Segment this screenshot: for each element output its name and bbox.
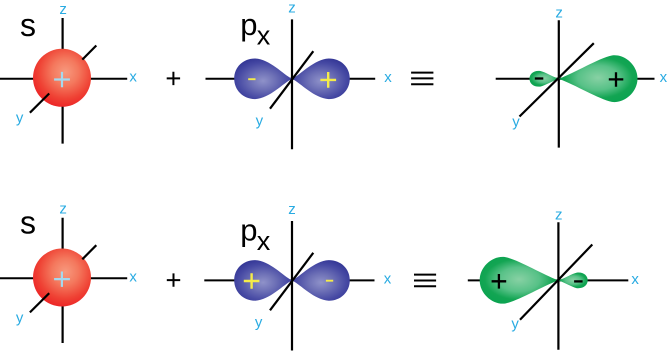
svg-text:z: z xyxy=(555,5,563,22)
svg-text:x: x xyxy=(129,268,137,285)
svg-text:s: s xyxy=(20,7,36,43)
svg-text:y: y xyxy=(255,314,263,331)
svg-text:z: z xyxy=(288,201,296,218)
s orbital (row 2): light blue plus sign xyxy=(54,272,70,287)
equivalence sign (row 1) xyxy=(411,73,433,85)
svg-text:p: p xyxy=(240,212,257,247)
p orbital (row 2): x axis wire xyxy=(204,279,374,281)
svg-text:y: y xyxy=(16,110,24,127)
p orbital (row 2): left lobe (positive) xyxy=(234,260,292,301)
s orbital (row 2): x axis wire xyxy=(0,277,127,279)
sp hybrid orbital (row 2): x axis wire xyxy=(468,279,629,281)
svg-text:x: x xyxy=(384,69,392,86)
s orbital (row 1): y axis upper segment xyxy=(82,46,96,60)
svg-text:y: y xyxy=(16,309,24,326)
p orbital (row 2): z axis wire xyxy=(291,221,293,351)
p orbital (row 2): yellow plus sign xyxy=(244,273,260,289)
p orbital (row 1): left lobe (negative) xyxy=(234,59,292,100)
svg-text:y: y xyxy=(256,112,264,129)
s orbital (row 1): y axis lower segment xyxy=(30,94,49,113)
sp hybrid orbital (row 1): y axis wire xyxy=(520,43,594,116)
sp hybrid orbital (row 1): black minus sign xyxy=(535,77,544,79)
sp hybrid orbital (row 1): z axis wire xyxy=(558,20,560,147)
sp hybrid orbital (row 2): z axis wire xyxy=(557,222,559,349)
plus operator (row 1) xyxy=(167,72,180,85)
s orbital (row 2): y axis lower segment xyxy=(30,293,49,312)
svg-text:x: x xyxy=(257,226,271,256)
sp hybrid orbital (row 2): black minus sign xyxy=(574,280,583,282)
p orbital (row 2): yellow minus sign xyxy=(326,280,333,282)
svg-text:x: x xyxy=(129,69,137,86)
sp hybrid orbital (row 2): small lobe (negative) xyxy=(558,272,587,288)
equivalence sign (row 2) xyxy=(414,275,436,287)
s orbital (row 2): z axis wire xyxy=(61,218,63,343)
s orbital (row 1): red sphere xyxy=(33,49,91,107)
svg-text:x: x xyxy=(660,69,668,86)
sp hybrid orbital (row 2): y axis wire xyxy=(520,245,592,320)
p orbital (row 2): y axis wire xyxy=(270,253,313,310)
sp hybrid orbital (row 1): x axis wire xyxy=(496,78,655,80)
sp hybrid orbital (row 1): large lobe (positive) xyxy=(559,55,638,102)
p orbital (row 2): right lobe (negative) xyxy=(292,260,350,301)
sp hybrid orbital (row 2): black plus sign xyxy=(492,274,507,289)
p orbital (row 1): z axis wire xyxy=(291,19,293,149)
s orbital (row 1): light blue plus sign xyxy=(54,72,70,87)
svg-text:y: y xyxy=(512,113,520,130)
p orbital (row 1): y axis wire xyxy=(270,51,313,108)
sp hybrid orbital (row 2): large lobe (positive) xyxy=(480,257,559,304)
p orbital (row 1): yellow plus sign xyxy=(320,72,336,88)
svg-text:z: z xyxy=(555,207,563,224)
svg-text:z: z xyxy=(59,201,67,218)
svg-text:x: x xyxy=(631,271,639,288)
s orbital (row 1): x axis wire xyxy=(0,78,127,80)
s orbital (row 2): red sphere xyxy=(33,249,91,307)
sp hybrid orbital (row 1): small lobe (negative) xyxy=(530,71,559,87)
p orbital (row 1): yellow minus sign xyxy=(248,78,255,80)
svg-text:z: z xyxy=(59,1,67,18)
sp hybrid orbital (row 1): black plus sign xyxy=(609,72,624,87)
plus operator (row 2) xyxy=(167,273,180,286)
svg-text:x: x xyxy=(384,271,392,288)
svg-text:z: z xyxy=(288,0,296,17)
svg-text:x: x xyxy=(257,21,271,51)
p orbital (row 1): right lobe (positive) xyxy=(292,59,350,100)
svg-text:p: p xyxy=(240,7,257,42)
svg-text:s: s xyxy=(20,205,36,241)
s orbital (row 1): z axis wire xyxy=(61,18,63,144)
svg-text:y: y xyxy=(511,315,519,332)
s orbital (row 2): y axis upper segment xyxy=(82,245,96,259)
p orbital (row 1): x axis wire xyxy=(206,78,376,80)
